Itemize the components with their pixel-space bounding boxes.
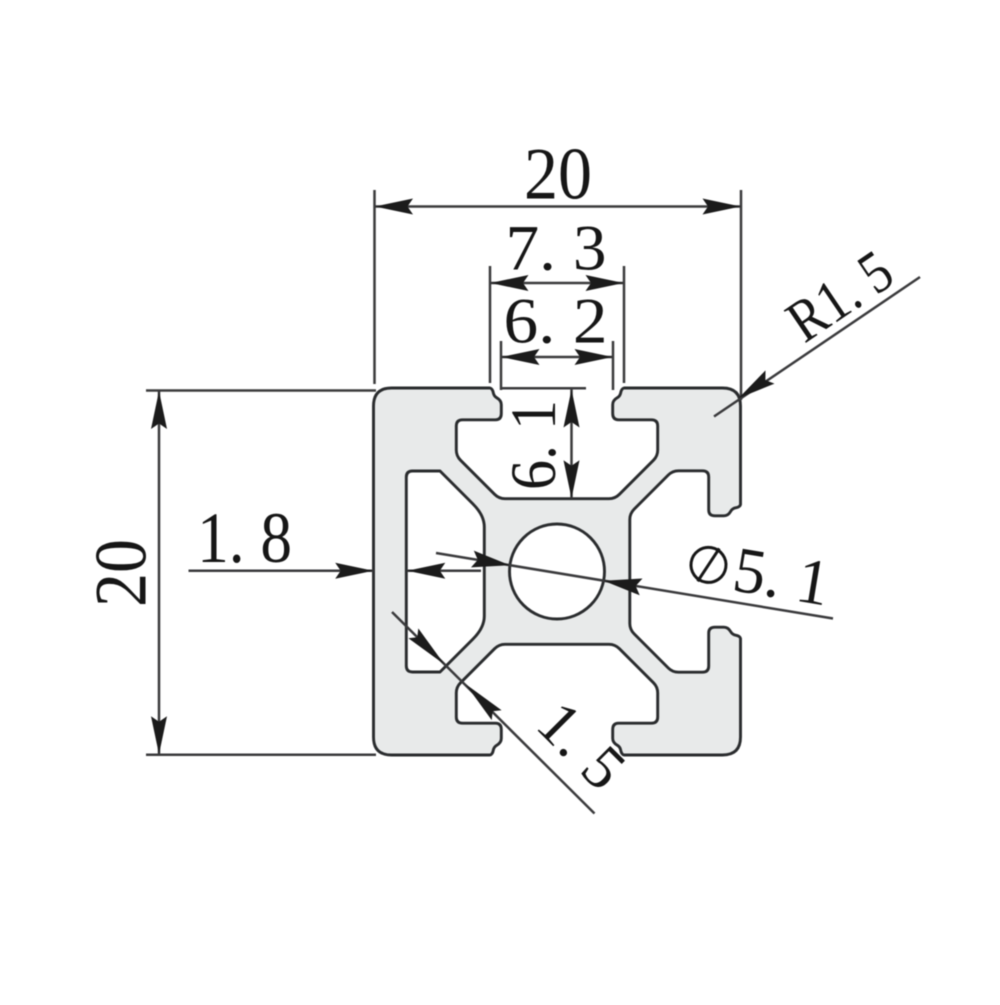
aluminum extrusion profile body (2020 cross-section) — [374, 388, 741, 755]
dimension 20 (left height): extension lines — [146, 389, 376, 392]
dimension 6.1 (slot depth): extension line across opening — [502, 387, 586, 390]
svg-text:20: 20 — [81, 539, 163, 607]
svg-text:6. 1: 6. 1 — [498, 400, 570, 490]
svg-text:7. 3: 7. 3 — [506, 213, 607, 285]
dimension R1.5 (corner radius): leader line — [714, 277, 920, 417]
dimension 7.3: dimension line — [490, 282, 624, 285]
dimension 6.1: dimension line — [570, 389, 573, 499]
dimension ∅5.1 (center bore): leader line — [436, 553, 833, 619]
dimension R1.5: value text (rotated) — [775, 237, 905, 354]
dimension 1.5: value text (rotated) — [524, 689, 639, 804]
svg-text:20: 20 — [524, 134, 592, 216]
dimension 7.3 (slot outer opening): extension lines — [489, 266, 492, 383]
dimension 20 (top width): dimension line — [375, 205, 742, 208]
dimension 6.2 (slot opening width): extension lines — [500, 341, 503, 390]
dimension 6.1: value text (rotated) — [498, 400, 570, 490]
dimension 1.8 (wall thickness): dimension lines and arrows — [189, 569, 374, 572]
dimension 20 (left height): dimension line — [158, 391, 161, 755]
dimension ∅5.1: value text (diameter symbol + 5. 1) — [685, 527, 834, 621]
svg-text:1. 8: 1. 8 — [197, 498, 292, 578]
svg-text:6. 2: 6. 2 — [504, 286, 608, 358]
dimension 20 (left height): value text (rotated) — [81, 539, 163, 607]
dimension 20 (top width): extension lines — [373, 190, 376, 384]
dimension 1.5 (web thickness): leader line — [392, 612, 595, 814]
dimension 6.2: dimension line — [501, 356, 613, 359]
